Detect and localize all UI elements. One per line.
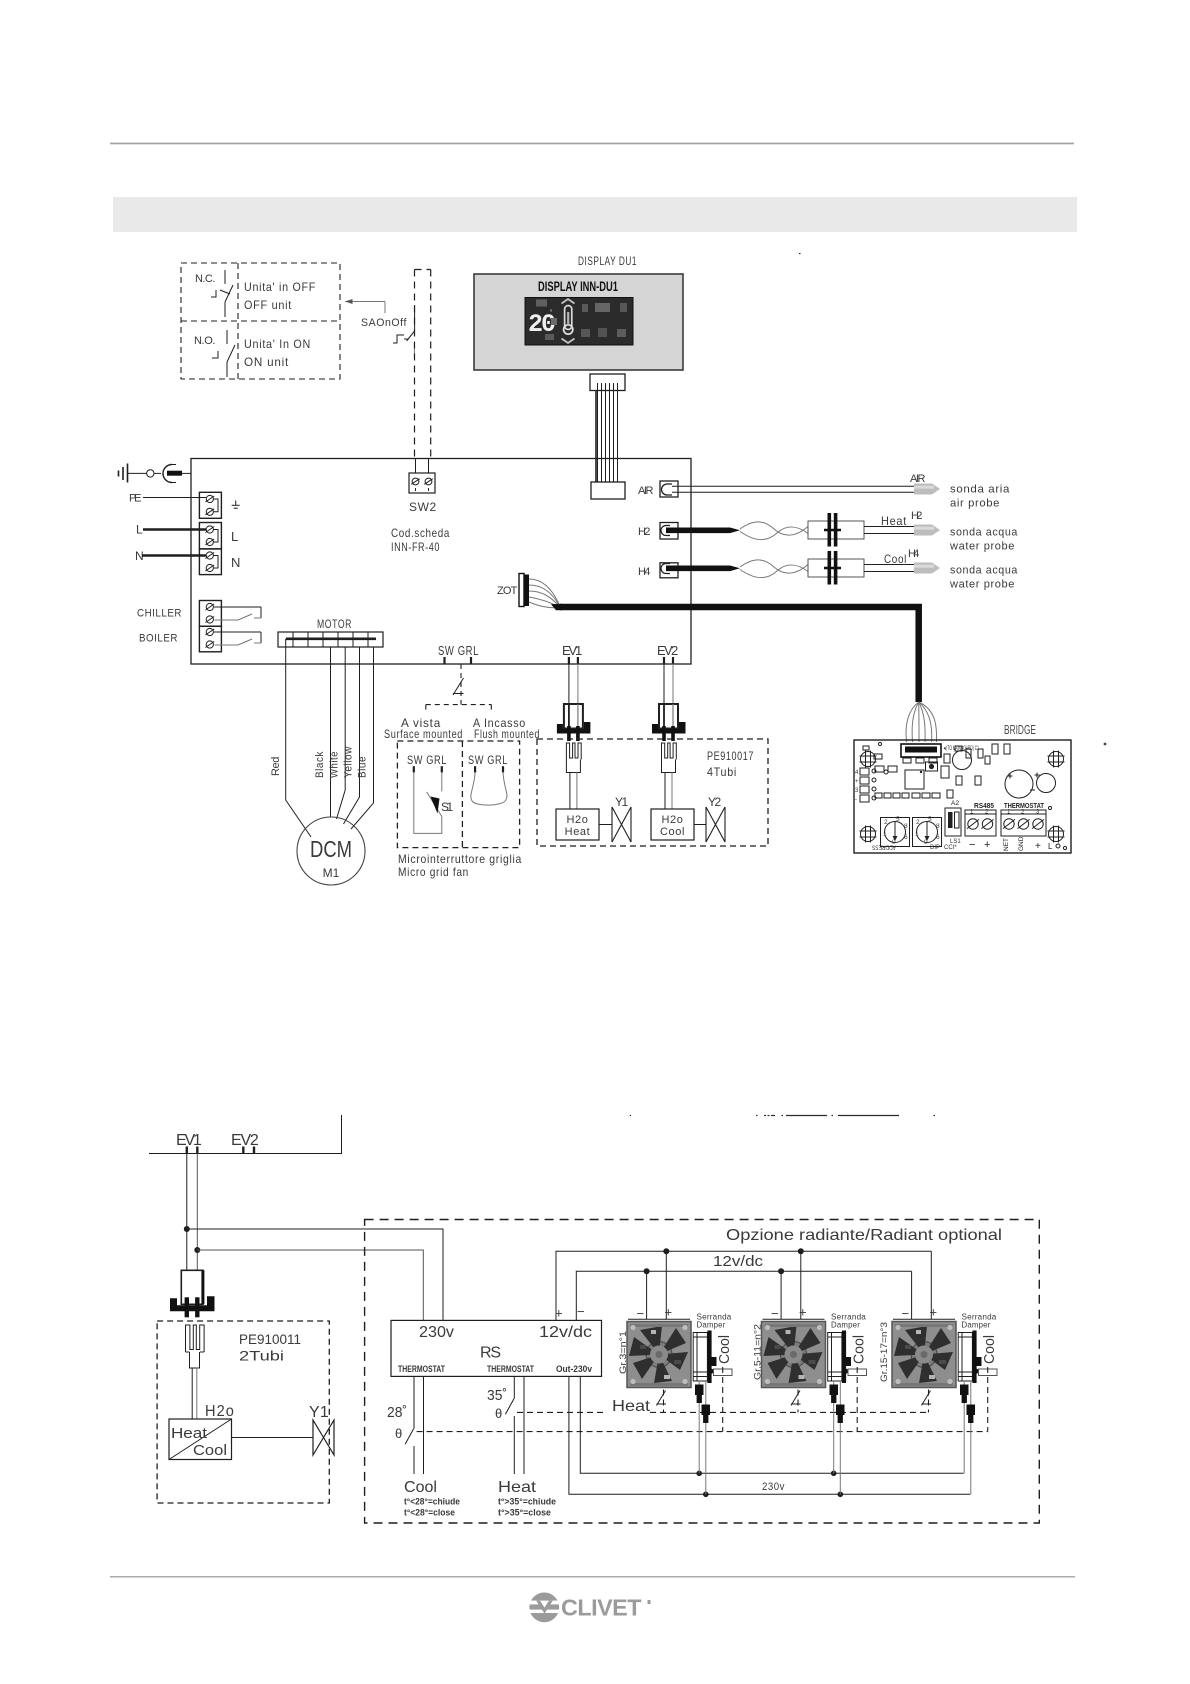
wire fan minus: [911, 1271, 913, 1319]
grid microswitch dashed box: [397, 741, 519, 848]
valve Y2: [694, 824, 706, 826]
svg-text:OFF unit: OFF unit: [244, 298, 292, 312]
switch contact N.O.: [212, 330, 235, 377]
main board INN-FR-40 outline: [191, 459, 691, 665]
svg-text:t°>35°=chiude: t°>35°=chiude: [498, 1497, 556, 1507]
svg-text:RS: RS: [480, 1345, 501, 1362]
svg-text:Micro grid fan: Micro grid fan: [398, 865, 469, 879]
switch contact N.C.: [211, 270, 233, 317]
svg-text:+: +: [555, 1306, 563, 1321]
svg-text:Damper: Damper: [697, 1321, 726, 1330]
svg-text:sonda acqua: sonda acqua: [950, 565, 1018, 577]
fan body: [762, 1322, 826, 1388]
motor M1 DCM circle: [297, 817, 365, 885]
svg-text:CCI*: CCI*: [944, 845, 957, 851]
gray banner: [113, 197, 1077, 232]
top horizontal rule: [110, 143, 1074, 145]
boiler contact wiring: [214, 632, 261, 643]
svg-text:AIR: AIR: [638, 485, 654, 497]
svg-text:BRIDGE: BRIDGE: [1004, 722, 1036, 737]
svg-text:S1: S1: [441, 800, 454, 814]
dashed box Opzione radiante: [365, 1220, 1040, 1524]
12v dc bus minus: [576, 1271, 911, 1320]
bridge input connector C1: [901, 744, 941, 757]
svg-text:Cool: Cool: [404, 1479, 437, 1496]
fan unit: [627, 1251, 733, 1494]
heat dashed riser + marker 4: [797, 1390, 799, 1413]
display DU1 enclosure: [474, 274, 683, 370]
Clivet logo globe: [527, 1593, 562, 1623]
heat dashed line: [517, 1411, 607, 1413]
svg-text:L: L: [231, 529, 239, 544]
svg-text:−: −: [969, 839, 975, 851]
motor wires to DCM: [286, 639, 374, 837]
cool dashed line: [417, 1431, 988, 1433]
svg-text:Cool: Cool: [851, 1335, 868, 1364]
fan unit: [762, 1251, 868, 1494]
arrow to SAOnOff: [345, 302, 385, 314]
230v bus junction dots: [696, 1471, 702, 1477]
svg-text:−: −: [637, 1306, 645, 1321]
svg-text:EV1: EV1: [562, 643, 583, 658]
wire to RS 230v (1): [187, 1229, 443, 1320]
bridge mounting holes: [861, 752, 876, 767]
svg-text:Red: Red: [270, 756, 282, 776]
svg-text:H2o: H2o: [567, 814, 589, 826]
wire to RS 230v (2): [197, 1250, 423, 1320]
svg-text:ADDRESS: ADDRESS: [872, 844, 896, 850]
svg-text:sonda aria: sonda aria: [950, 484, 1010, 496]
H4 probe wires: [864, 564, 914, 566]
plug blade: [167, 471, 182, 476]
chiller contact wiring: [214, 607, 261, 618]
svg-text:Damper: Damper: [831, 1321, 860, 1330]
EV bus wire: [149, 1115, 342, 1154]
earth symbol at mains plug: [119, 464, 128, 483]
svg-text:5: 5: [896, 816, 900, 823]
svg-text:−: −: [771, 1306, 779, 1321]
svg-text:8: 8: [936, 823, 940, 830]
svg-text:GND: GND: [1018, 836, 1025, 851]
fan body: [627, 1322, 691, 1388]
cool dashed riser: [856, 1367, 858, 1432]
power supply RS box: [391, 1320, 602, 1376]
connector AIR: [660, 481, 678, 497]
svg-text:EV2: EV2: [657, 643, 679, 658]
svg-text:ON unit: ON unit: [244, 355, 289, 369]
valve coil H2o Cool: [651, 809, 694, 840]
flush jumper loop: [471, 772, 507, 805]
svg-text:Microinterruttore griglia: Microinterruttore griglia: [398, 852, 522, 866]
damper assembly: [693, 1333, 707, 1382]
damper wire A: [963, 1382, 965, 1385]
air probe wires: [672, 485, 914, 487]
svg-text:35˚: 35˚: [487, 1387, 507, 1404]
svg-text:−: −: [577, 1304, 585, 1319]
svg-text:Unita' in OFF: Unita' in OFF: [244, 280, 316, 294]
water probe H2: [914, 525, 940, 536]
svg-text:Opzione radiante/Radiant optio: Opzione radiante/Radiant optional: [726, 1227, 1002, 1244]
damper side stub: [714, 1369, 733, 1376]
switch SW2 box: [415, 459, 417, 474]
ZOT connector: [519, 574, 524, 607]
display cable connector bottom: [591, 482, 625, 499]
H4 cable thick: [666, 566, 740, 572]
valve wires: [191, 1368, 193, 1419]
svg-text:N: N: [231, 555, 241, 570]
bridge left pin header: [860, 768, 869, 775]
valve coil Heat/Cool: [169, 1419, 232, 1460]
dashed box PE910011 2Tubi: [157, 1321, 329, 1503]
svg-text:water probe: water probe: [949, 541, 1015, 553]
svg-text:0: 0: [924, 839, 928, 846]
wire fan minus: [646, 1271, 648, 1319]
svg-text:2Tubi: 2Tubi: [239, 1348, 284, 1364]
svg-text:SW GRL: SW GRL: [438, 643, 479, 658]
thermostat 2 wires: [513, 1376, 515, 1398]
svg-text:MOTOR: MOTOR: [317, 617, 352, 631]
svg-text:H2: H2: [911, 510, 923, 522]
wire fan plus: [800, 1251, 802, 1319]
junction node B: [194, 1247, 200, 1253]
svg-text:230v: 230v: [419, 1324, 454, 1341]
svg-text:Cod.scheda: Cod.scheda: [391, 526, 450, 540]
svg-text:NET: NET: [1003, 838, 1010, 851]
svg-text:H4: H4: [908, 548, 920, 560]
fan unit: [892, 1251, 998, 1494]
svg-text:CLIVET: CLIVET: [561, 1596, 642, 1621]
switch S1: [414, 772, 442, 833]
valve Y1: [232, 1437, 314, 1439]
bottom horizontal rule: [110, 1576, 1075, 1578]
svg-text:Y1: Y1: [309, 1404, 330, 1421]
svg-text:EV1: EV1: [176, 1132, 203, 1149]
bridge smd parts: [875, 766, 884, 772]
damper wire B: [970, 1382, 972, 1405]
display ribbon cable: [598, 391, 618, 483]
faint remnant marks above lower diagram: [630, 254, 935, 1116]
fan supply terminals: [893, 1318, 955, 1320]
svg-text:SW GRL: SW GRL: [468, 753, 508, 767]
svg-text:AIR: AIR: [910, 473, 926, 485]
H4 twisted pair: [740, 560, 808, 573]
valve connector EV1: [568, 664, 570, 705]
damper inline plug A: [695, 1385, 704, 1396]
EV1 drop wires: [186, 1154, 188, 1271]
svg-text:DISPLAY INN-DU1: DISPLAY INN-DU1: [538, 279, 618, 294]
svg-text:PE: PE: [129, 493, 142, 505]
bus junction dots: [663, 1248, 669, 1254]
damper side stub: [848, 1369, 867, 1376]
damper inline plug A: [830, 1385, 839, 1396]
display cable connector top: [590, 374, 625, 391]
svg-text:H2o: H2o: [205, 1403, 235, 1420]
svg-text:+: +: [930, 1305, 938, 1320]
thermostat 1 wires: [413, 1376, 415, 1428]
svg-text:t°<28°=chiude: t°<28°=chiude: [404, 1497, 460, 1507]
svg-text:sonda acqua: sonda acqua: [950, 527, 1018, 539]
bridge rotary switch SW-A: [881, 818, 910, 847]
damper inline plug B: [967, 1405, 976, 1416]
H4 inline terminal: [808, 559, 864, 577]
svg-text:Heat: Heat: [171, 1425, 208, 1442]
terminal block PE: [199, 492, 221, 518]
svg-text:L: L: [1048, 842, 1053, 851]
svg-text:Cool: Cool: [981, 1335, 998, 1364]
svg-text:Cool: Cool: [660, 826, 685, 838]
valve coil H2o Heat: [556, 809, 599, 840]
svg-text:6: 6: [904, 834, 908, 841]
svg-text:CHILLER: CHILLER: [137, 608, 182, 620]
svg-text:water probe: water probe: [949, 579, 1015, 591]
valve connector EV2: [663, 664, 665, 705]
terminal block CHILLER/BOILER: [199, 601, 221, 627]
damper wire A: [833, 1382, 835, 1385]
svg-text:+: +: [855, 779, 859, 785]
terminal block L: [199, 523, 221, 549]
svg-text:Y1: Y1: [615, 795, 629, 809]
svg-text:Cool: Cool: [716, 1335, 733, 1364]
mains wire and connector circle: [128, 472, 147, 474]
svg-text:H2o: H2o: [662, 814, 684, 826]
svg-text:1: 1: [883, 831, 887, 838]
ZOT thick cable to bridge: [551, 604, 562, 610]
svg-text:6: 6: [936, 834, 940, 841]
dashed box PE910017 4 Tubi: [537, 739, 768, 846]
svg-text:12v/dc: 12v/dc: [713, 1253, 764, 1270]
out-230v wires: [569, 1376, 970, 1494]
svg-text:28˚: 28˚: [387, 1404, 407, 1421]
svg-text:θ: θ: [495, 1406, 502, 1421]
svg-text:SAOnOff: SAOnOff: [361, 317, 407, 329]
svg-text:t°>35°=close: t°>35°=close: [498, 1508, 551, 1518]
svg-text:ZOT: ZOT: [497, 585, 518, 597]
svg-text:M1: M1: [323, 866, 340, 880]
svg-text:DIP: DIP: [930, 845, 940, 851]
12v dc bus plus: [556, 1251, 931, 1320]
svg-text:Cool: Cool: [884, 552, 907, 566]
svg-text:Unita' In ON: Unita' In ON: [244, 337, 311, 351]
svg-text:Surface mounted: Surface mounted: [384, 727, 463, 741]
svg-text:-: -: [855, 797, 857, 803]
damper assembly: [958, 1333, 972, 1382]
svg-text:N.O.: N.O.: [194, 335, 216, 347]
svg-text:Cool: Cool: [193, 1442, 227, 1459]
svg-text:Heat: Heat: [565, 826, 591, 838]
svg-text:Heat: Heat: [612, 1398, 651, 1415]
wire-count marker 4: [453, 678, 464, 695]
svg-text:H4: H4: [638, 566, 651, 578]
H2 probe wires: [864, 526, 914, 528]
bridge misc parts: [953, 751, 972, 770]
motor connector: [278, 632, 383, 647]
svg-text:Blue: Blue: [357, 756, 369, 778]
earth symbol at PE block: [232, 501, 240, 509]
junction node A: [184, 1226, 190, 1232]
svg-text:THERMOSTAT: THERMOSTAT: [398, 1364, 445, 1374]
svg-text:DISPLAY DU1: DISPLAY DU1: [578, 254, 637, 268]
bridge IC U1: [905, 770, 924, 789]
connector H2: [660, 523, 678, 540]
valve cable socket: [186, 1325, 205, 1368]
bridge board outline: [854, 740, 1071, 853]
svg-text:θ: θ: [395, 1426, 402, 1441]
H2 twisted pair: [740, 522, 808, 535]
damper inline plug B: [702, 1405, 711, 1416]
svg-text:Heat: Heat: [498, 1479, 537, 1496]
svg-text:LS1: LS1: [950, 839, 961, 845]
damper inline plug A: [960, 1385, 969, 1396]
svg-text:White: White: [329, 751, 341, 778]
valve Y1: [599, 824, 612, 826]
svg-text:3: 3: [855, 788, 859, 794]
terminal block N: [199, 549, 221, 575]
fan supply terminals: [628, 1318, 690, 1320]
svg-text:+: +: [799, 1305, 807, 1320]
fan supply terminals: [763, 1318, 825, 1320]
water probe H4: [914, 563, 940, 574]
svg-text:BOILER: BOILER: [139, 633, 178, 645]
cool dashed riser: [987, 1367, 989, 1432]
damper side stub: [979, 1369, 998, 1376]
svg-text:Yellow: Yellow: [343, 746, 355, 778]
damper wire B: [839, 1382, 841, 1405]
cool dashed riser: [722, 1367, 724, 1432]
damper assembly: [828, 1333, 842, 1382]
svg-text:H2: H2: [638, 526, 651, 538]
svg-text:A2: A2: [951, 800, 959, 807]
svg-text:DCM: DCM: [310, 836, 352, 862]
svg-text:Y2: Y2: [708, 795, 722, 809]
connector H4: [660, 563, 678, 578]
damper wire A: [698, 1382, 700, 1385]
display LCD panel: [525, 298, 633, 346]
svg-text:−: −: [902, 1306, 910, 1321]
svg-text:+: +: [665, 1305, 673, 1320]
valve cable socket EV1: [566, 743, 581, 773]
svg-text:N.C.: N.C.: [195, 273, 216, 285]
svg-text:4Tubi: 4Tubi: [707, 765, 737, 779]
svg-text:˚: ˚: [550, 309, 553, 318]
svg-text:PE910011: PE910011: [239, 1331, 301, 1347]
svg-text:t°<28°=close: t°<28°=close: [404, 1508, 455, 1518]
wire fan minus: [780, 1271, 782, 1319]
svg-text:Heat: Heat: [881, 514, 907, 528]
switch SAOnOff: [393, 305, 415, 343]
H2 inline terminal: [808, 521, 864, 539]
svg-text:PE910017: PE910017: [707, 749, 754, 763]
svg-text:12v/dc: 12v/dc: [539, 1324, 592, 1341]
bridge fan-in wires: [906, 702, 937, 742]
dashed wire pair to SW2: [415, 270, 431, 459]
H2 cable thick: [666, 528, 740, 534]
svg-text:8: 8: [904, 823, 908, 830]
bridge electrolytic capacitors: [1005, 770, 1033, 798]
damper wire B: [705, 1382, 707, 1405]
valve cable socket EV2: [662, 743, 677, 773]
bridge rotary switch SW-B: [913, 818, 942, 847]
svg-text:THERMOSTAT: THERMOSTAT: [487, 1364, 534, 1374]
svg-text:SW2: SW2: [409, 500, 437, 514]
air probe: [914, 484, 940, 495]
ZOT fan-out wires: [529, 579, 559, 608]
svg-text:Black: Black: [314, 751, 326, 778]
svg-text:EV2: EV2: [231, 1132, 260, 1149]
svg-text:INN-FR-40: INN-FR-40: [391, 540, 440, 554]
wire fan plus: [665, 1251, 667, 1319]
heat dashed riser + marker 4: [663, 1390, 665, 1413]
svg-text:230v: 230v: [762, 1481, 785, 1493]
svg-text:Out-230v: Out-230v: [556, 1364, 592, 1374]
svg-text:air probe: air probe: [950, 498, 1000, 510]
svg-text:Gr.15-17=n°3: Gr.15-17=n°3: [879, 1322, 890, 1382]
EV1 connector (bottom): [181, 1270, 203, 1304]
svg-text:1: 1: [915, 831, 919, 838]
svg-text:2: 2: [884, 819, 888, 826]
svg-text:L: L: [136, 523, 143, 537]
damper inline plug B: [836, 1405, 845, 1416]
remote ON/OFF dashed box: [181, 263, 340, 379]
svg-text:5: 5: [928, 816, 932, 823]
svg-text:2: 2: [916, 819, 920, 826]
plug shell: [163, 465, 172, 483]
svg-text:Flush mounted: Flush mounted: [474, 727, 540, 741]
svg-text:4: 4: [855, 770, 859, 776]
wire fan plus: [930, 1251, 932, 1319]
svg-text:+: +: [1035, 841, 1041, 852]
svg-text:+: +: [984, 839, 990, 851]
svg-text:SW GRL: SW GRL: [407, 753, 447, 767]
svg-text:Damper: Damper: [962, 1321, 991, 1330]
dashed drop from SW GRL: [426, 664, 492, 713]
heat dashed riser + marker 4: [928, 1390, 930, 1413]
fan body: [892, 1322, 956, 1388]
